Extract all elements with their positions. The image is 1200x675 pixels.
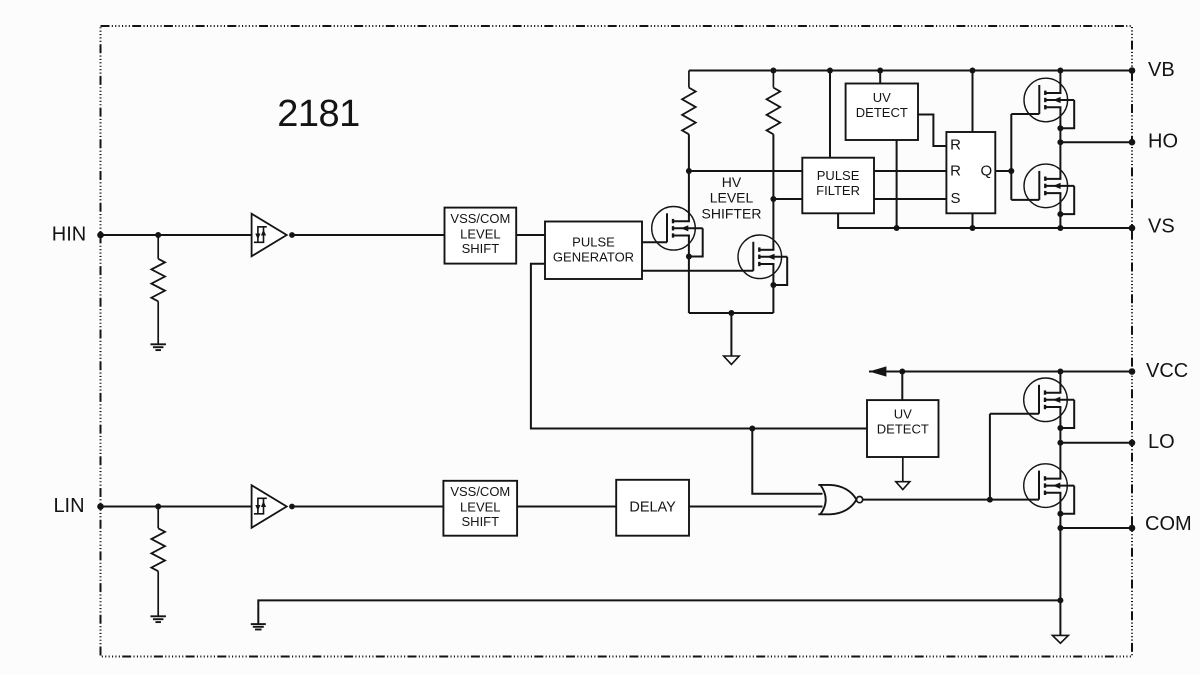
resistor R2 lower lead xyxy=(157,571,159,616)
wire HO xyxy=(1060,141,1132,143)
wire HV bottom to ground arrow xyxy=(730,313,732,356)
svg-text:2181: 2181 xyxy=(277,93,360,135)
wire junction to NOR input A xyxy=(752,429,822,494)
wire left HV rail upper xyxy=(688,134,690,221)
node latch at VS xyxy=(970,225,976,231)
wire VB rail xyxy=(689,70,1132,72)
node rail at return xyxy=(1057,597,1063,603)
resistor R3 zigzag xyxy=(682,88,696,135)
node VB to UV detect xyxy=(877,68,883,74)
wire pulse filter to latch S xyxy=(874,198,946,200)
svg-text:SHIFT: SHIFT xyxy=(462,514,500,529)
wire HIN to buffer xyxy=(101,234,252,236)
node VB to latch xyxy=(970,68,976,74)
svg-text:S: S xyxy=(950,190,960,207)
wire VB to UV detect xyxy=(879,71,881,84)
block VSS/COM LEVEL SHIFT (low side) xyxy=(443,481,517,536)
arrow VCC (solid) xyxy=(869,366,886,376)
resistor R1 lower lead xyxy=(157,301,159,344)
node UV detect at VS xyxy=(894,225,900,231)
svg-text:HIN: HIN xyxy=(52,223,86,245)
transistor M2 (HV level shifter right) xyxy=(738,235,782,279)
node rail at VB xyxy=(1057,68,1063,74)
svg-text:FILTER: FILTER xyxy=(816,183,860,198)
svg-text:UV: UV xyxy=(873,90,891,105)
wire low-side rail M5-M6 xyxy=(1059,407,1061,479)
node R4 at VB xyxy=(770,68,776,74)
wire R row to pulse filter xyxy=(689,170,802,172)
node rail at COM xyxy=(1057,525,1063,531)
latch U2 (set/reset) xyxy=(946,132,995,213)
node VB to pulse filter xyxy=(827,68,833,74)
block PULSE FILTER xyxy=(802,158,874,214)
wire latch to VS xyxy=(972,213,974,228)
svg-text:LIN: LIN xyxy=(53,495,84,517)
wire level shift to pulse generator xyxy=(516,234,545,236)
svg-text:VSS/COM: VSS/COM xyxy=(450,211,510,226)
resistor R2 zigzag xyxy=(151,528,165,571)
wire U1 to VSS/COM level shift xyxy=(292,234,445,236)
node HIN/R1 junction xyxy=(155,232,161,238)
wire VB to pulse filter xyxy=(829,71,831,158)
resistor R4 zigzag xyxy=(767,88,781,135)
resistor R2 (LIN pulldown) lead xyxy=(157,507,159,529)
svg-text:LO: LO xyxy=(1148,431,1175,453)
svg-text:COM: COM xyxy=(1145,513,1192,535)
node rail at LO xyxy=(1057,440,1063,446)
transistor M1 (HV level shifter left) xyxy=(652,207,696,251)
resistor R4 upper lead xyxy=(772,71,774,88)
block UV DETECT (high side) xyxy=(846,84,918,141)
node U1 output xyxy=(289,232,295,238)
pin LIN dot xyxy=(97,503,104,510)
svg-text:DELAY: DELAY xyxy=(629,500,676,516)
block DELAY xyxy=(616,480,689,536)
svg-text:VCC: VCC xyxy=(1146,360,1188,382)
wire LO xyxy=(1060,442,1132,444)
wire pulse filter to VS xyxy=(838,213,1132,228)
ground (HIN pulldown) xyxy=(150,343,166,345)
wire COM xyxy=(1060,527,1132,529)
wire high-side rail M3-M4 xyxy=(1059,107,1061,179)
svg-text:SHIFT: SHIFT xyxy=(462,241,500,256)
block PULSE GENERATOR xyxy=(545,222,642,280)
svg-text:LEVEL: LEVEL xyxy=(460,499,500,514)
wire left HV rail lower xyxy=(688,236,690,314)
transistor M5 (low-side output upper) xyxy=(1024,378,1068,422)
ground (LIN pulldown) xyxy=(150,615,166,617)
svg-text:DETECT: DETECT xyxy=(856,105,908,120)
resistor R3 upper lead xyxy=(688,71,690,88)
svg-text:UV: UV xyxy=(894,407,912,422)
wire level shift to delay xyxy=(517,506,616,508)
wire S row to pulse filter xyxy=(773,198,802,200)
pin LO dot xyxy=(1129,440,1136,447)
node Q junction xyxy=(1008,168,1014,174)
svg-text:HV: HV xyxy=(722,174,742,190)
svg-text:VSS/COM: VSS/COM xyxy=(450,484,510,499)
wire high-side rail M4-VS xyxy=(1059,193,1061,228)
wire latch Q to gate feed xyxy=(995,170,1011,172)
wire UV detect to latch R input xyxy=(918,115,946,147)
svg-text:PULSE: PULSE xyxy=(572,234,615,249)
node LIN/R2 junction xyxy=(155,504,161,510)
wire right HV rail lower xyxy=(772,264,774,313)
resistor R1 zigzag xyxy=(151,259,165,302)
node right rail S-row junction xyxy=(770,196,776,202)
node HV bottom junction xyxy=(728,310,734,316)
node VCC to UV detect xyxy=(899,369,905,375)
ground arrow (UV detect low) xyxy=(896,482,910,490)
gate G1 (NOR) xyxy=(820,485,825,514)
wire high-side rail VB-M3 xyxy=(1059,71,1061,94)
block UV DETECT (low side) xyxy=(867,400,939,457)
wire HV level shifter bottom xyxy=(689,312,774,314)
wire pulse filter to latch R xyxy=(874,170,946,172)
wire gate feed (high side) xyxy=(1010,114,1012,200)
node feedback junction xyxy=(749,426,755,432)
ground arrow (COM rail) xyxy=(1052,635,1068,643)
wire COM return xyxy=(258,600,1060,623)
wire DELAY to NOR input B xyxy=(689,506,823,508)
svg-text:VS: VS xyxy=(1148,216,1175,238)
transistor M4 (high-side output lower) xyxy=(1024,164,1068,208)
ground (COM return) xyxy=(251,623,266,625)
node rail at HO xyxy=(1057,139,1063,145)
schmitt buffer U3 xyxy=(252,485,287,528)
pin VCC dot xyxy=(1129,368,1136,375)
pin COM dot xyxy=(1129,525,1136,532)
wire UV detect ground lead xyxy=(902,457,904,482)
wire NOR output to gate feed xyxy=(863,499,990,501)
node NOR output junction xyxy=(987,497,993,503)
svg-text:LEVEL: LEVEL xyxy=(460,226,500,241)
node rail at VS xyxy=(1057,225,1063,231)
node U3 output xyxy=(289,504,295,510)
node left rail R-row junction xyxy=(686,168,692,174)
wire UV detect to VS xyxy=(896,140,898,228)
pin VB dot xyxy=(1129,67,1136,74)
resistor R1 (HIN pulldown) lead xyxy=(157,235,159,259)
wire U3 to VSS/COM level shift xyxy=(292,506,443,508)
pin VS dot xyxy=(1129,225,1136,232)
transistor M6 (low-side output lower) xyxy=(1024,464,1068,508)
wire VCC xyxy=(869,371,1132,373)
wire VCC to UV detect xyxy=(901,372,903,401)
svg-text:DETECT: DETECT xyxy=(877,422,929,437)
wire rail to ground arrow xyxy=(1059,600,1061,635)
pin HO dot xyxy=(1129,139,1136,146)
svg-text:GENERATOR: GENERATOR xyxy=(553,249,634,264)
pin HIN dot xyxy=(97,232,104,239)
svg-text:PULSE: PULSE xyxy=(817,168,860,183)
svg-text:VB: VB xyxy=(1148,59,1175,81)
transistor M3 (high-side output upper) xyxy=(1024,78,1068,122)
node rail at VCC xyxy=(1057,369,1063,375)
wire pulse generator feedback to UV detect xyxy=(531,264,867,429)
block VSS/COM LEVEL SHIFT (high side) xyxy=(445,208,517,264)
svg-text:R: R xyxy=(950,137,961,154)
wire right HV rail upper xyxy=(772,134,774,250)
schmitt buffer U1 xyxy=(252,214,287,257)
wire gate feed (low side) xyxy=(989,414,991,500)
svg-text:LEVEL: LEVEL xyxy=(710,190,754,206)
wire low-side rail M6-return xyxy=(1059,493,1061,601)
svg-text:R: R xyxy=(950,162,961,179)
svg-text:Q: Q xyxy=(980,162,992,179)
ground arrow (HV level shifter) xyxy=(724,356,740,364)
wire low-side rail VCC-M5 xyxy=(1059,372,1061,393)
svg-text:SHIFTER: SHIFTER xyxy=(702,206,762,222)
wire LIN to buffer xyxy=(101,506,252,508)
wire VB to latch xyxy=(972,71,974,133)
svg-text:HO: HO xyxy=(1148,130,1178,152)
